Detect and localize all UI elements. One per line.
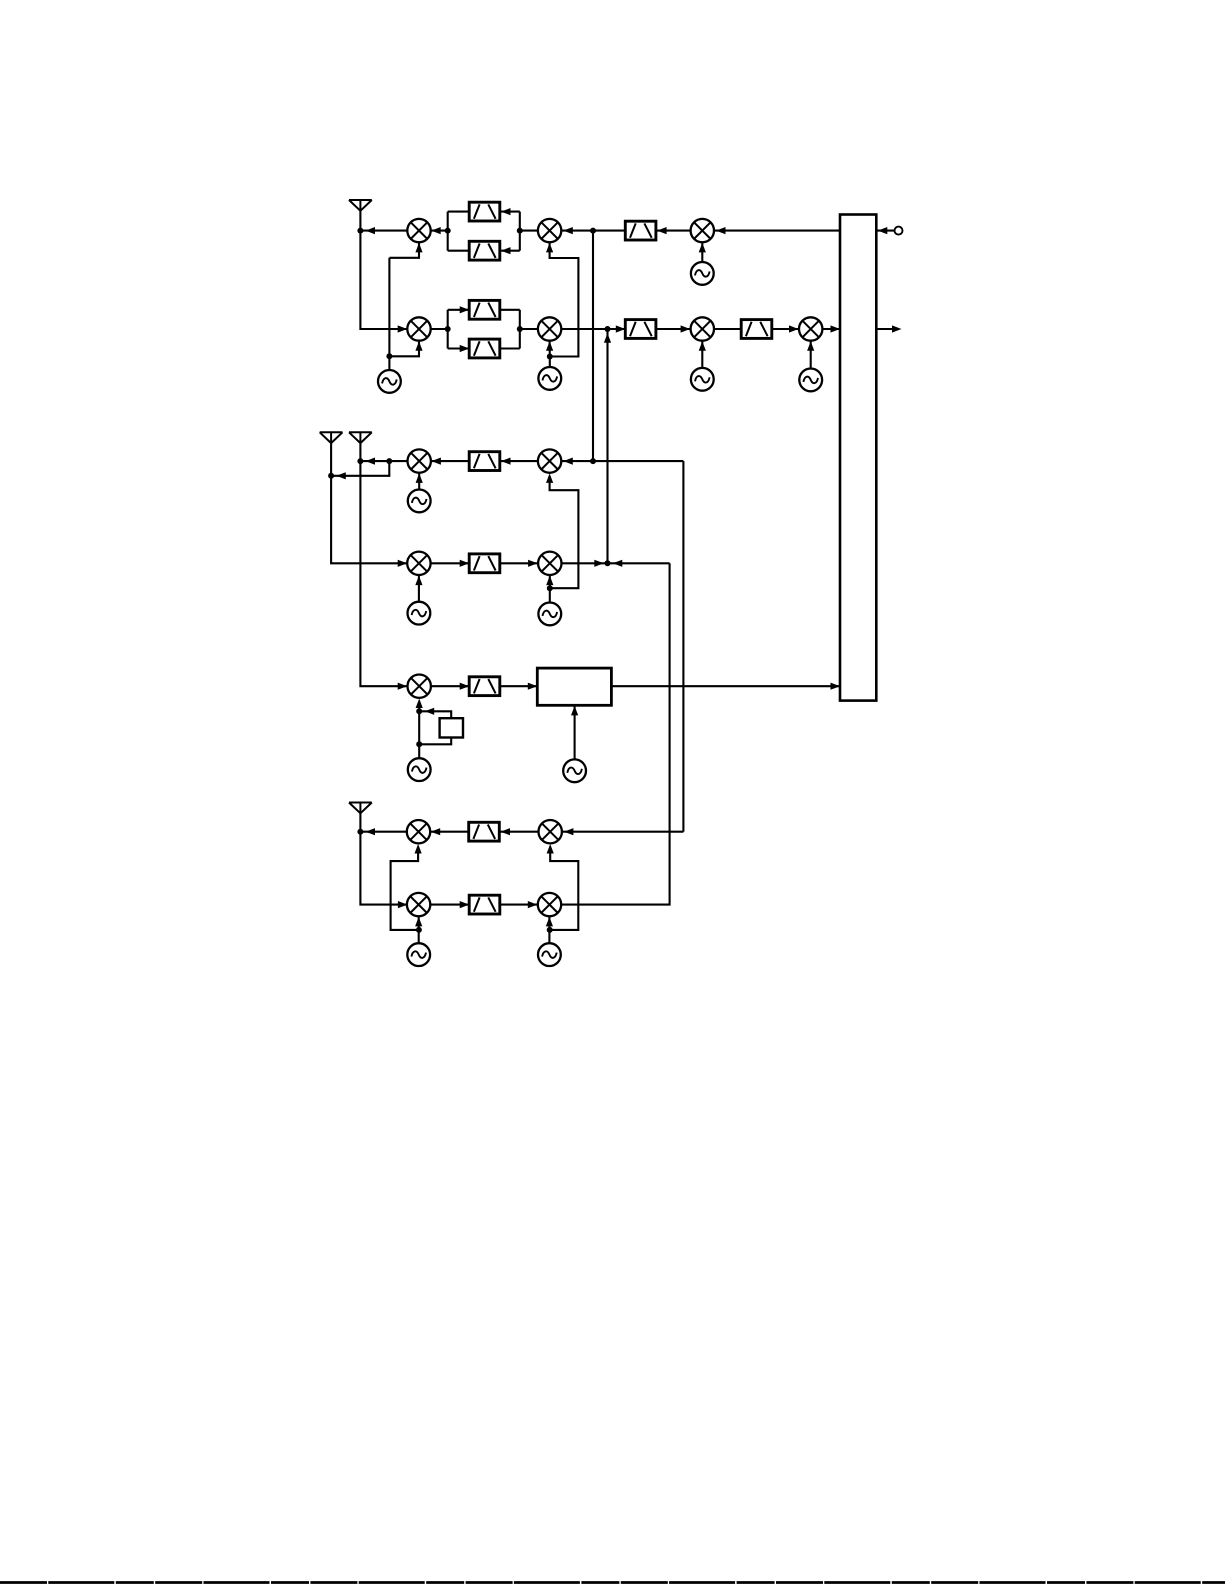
node row4 merge [605, 560, 611, 566]
mixer M16 [539, 820, 562, 843]
wire ANT3 lead [360, 443, 407, 686]
mixer M9 [538, 449, 561, 472]
wire F8 to M8 [431, 460, 469, 462]
wire M8 to ANT3 [360, 460, 407, 462]
node ANT1 junction [357, 228, 363, 234]
wire left bracket row2 [447, 310, 449, 349]
wire M9 LO elbow [550, 477, 579, 588]
wire F7 to M7 [772, 328, 799, 330]
oscillator OSC2 [378, 370, 401, 393]
arrowhead into M16 [564, 828, 574, 835]
wire M9 to F8 [500, 460, 538, 462]
filter F4 [469, 300, 500, 319]
wire M10 to F9 [431, 562, 470, 564]
filter F11 [469, 822, 500, 841]
oscillator OSC12 [538, 943, 561, 966]
mixer M5 [538, 317, 561, 340]
wire OSC2 to M4 [389, 341, 419, 357]
oscillator OSC4 [691, 368, 714, 391]
wire OSC7 to M10 [418, 575, 420, 602]
wire OSC3 to M5 [549, 341, 551, 357]
node ANT4 junction [357, 829, 363, 835]
mixer M15 [407, 820, 430, 843]
wire OSC12 up [548, 916, 550, 943]
arrowhead into F11 [501, 828, 511, 835]
mixer M3 [691, 219, 714, 242]
node row3 split [386, 458, 392, 464]
mixer M8 [408, 449, 431, 472]
arrowhead OSC9 into DCO [571, 706, 578, 716]
arrowhead divider into node [425, 708, 435, 715]
arrowhead into M6 [681, 325, 691, 332]
wire M1 to filter bracket [431, 230, 448, 232]
wire stub to F1 [448, 211, 470, 213]
wire OSC9 to DCO [574, 705, 576, 759]
wire left bracket row1 [447, 212, 449, 251]
wire row3 feed down to row6 [682, 461, 684, 832]
wire row7 into row4 merge [608, 562, 670, 564]
arrowhead into F8 [501, 458, 511, 465]
arrowhead into baseband right [878, 227, 888, 234]
mixer M10 [407, 552, 430, 575]
wire OSC1 to M3 [701, 242, 703, 262]
mixer M11 [538, 552, 561, 575]
arrowhead into mixer M4 [398, 325, 408, 332]
node right bracket row1 [517, 228, 523, 234]
antenna ANT1 [349, 200, 372, 211]
node ANT2 junction [328, 473, 334, 479]
wire M5 to F6 [561, 328, 625, 330]
arrowhead into M7 [789, 325, 799, 332]
arrowhead OSC2 into M1 [415, 243, 422, 253]
node divider top [416, 708, 422, 714]
oscillator OSC9 [563, 759, 586, 782]
page rule [0, 1581, 1225, 1584]
mixer M1 [407, 219, 430, 242]
arrowhead into mixer M12 [398, 683, 408, 690]
filter F1 [469, 202, 500, 221]
arrowhead into DCO [528, 683, 538, 690]
wire divider bottom link [419, 738, 451, 745]
wire OSC3 up [549, 357, 551, 368]
wire row3 feed [561, 460, 683, 462]
wire F5 out [500, 347, 520, 349]
wire OSC6 to M8 [418, 473, 420, 490]
arrowhead OSC12 into M14 [546, 917, 553, 927]
wire stub to F4 [448, 309, 470, 311]
node left bracket row1 [445, 228, 451, 234]
arrowhead shared osc into M9 [546, 473, 553, 483]
wire row7 riser into row2 merge [606, 329, 608, 563]
wire input terminal [876, 230, 894, 232]
wire OSC8 up [549, 575, 551, 603]
wire row6 feed [562, 831, 684, 833]
arrowhead into F3 [657, 227, 667, 234]
node OSC3 split [547, 354, 553, 360]
arrowhead OSC8 into M11 [546, 576, 553, 586]
mixer M14 [538, 893, 561, 916]
terminal circle [895, 227, 903, 235]
arrowhead OSC1 into M3 [699, 243, 706, 253]
arrowhead into ANT4 node [366, 828, 376, 835]
node row2 merge [605, 326, 611, 332]
arrowhead into F6 [616, 325, 626, 332]
baseband processor block [840, 215, 876, 701]
wire OSC11 up [418, 916, 420, 943]
wire M7 to baseband [822, 328, 840, 330]
arrowhead into baseband row2 [831, 325, 841, 332]
oscillator OSC7 [408, 602, 431, 625]
oscillator OSC10 [408, 758, 431, 781]
arrowhead into ANT2 node [336, 472, 346, 479]
wire F4 out [500, 309, 520, 311]
oscillator OSC1 [691, 262, 714, 285]
wire row3 split to ANT2 [331, 461, 389, 476]
mixer M6 [691, 317, 714, 340]
arrowhead OSC5 into M7 [807, 341, 814, 351]
filter F6 [625, 320, 656, 339]
wire F11 to M15 [430, 831, 469, 833]
arrowhead into M9 [563, 458, 573, 465]
wire F6 to M6 [656, 328, 691, 330]
node OSC2 split [386, 353, 392, 359]
wire bracket to M2 [520, 230, 538, 232]
arrowhead M11 out [594, 560, 604, 567]
arrowhead into M1 [431, 227, 441, 234]
node ANT3 junction [357, 458, 363, 464]
wire OSC2 to M1 [389, 242, 419, 257]
arrowhead into F4 [460, 306, 470, 313]
arrowhead baseband output [892, 325, 902, 332]
filter F7 [741, 320, 772, 339]
filter F12 [469, 895, 500, 914]
oscillator OSC5 [799, 369, 822, 392]
arrowhead OSC4 into M6 [699, 341, 706, 351]
wire right bracket row1 [519, 212, 521, 251]
wire OSC4 to M6 [701, 341, 703, 368]
wire F10 to DCO [500, 685, 538, 687]
arrowhead into M11 [528, 560, 538, 567]
arrowhead into F5 [460, 345, 470, 352]
node row1 tap [590, 228, 596, 234]
arrowhead into M14 [528, 901, 538, 908]
oscillator OSC6 [408, 490, 431, 513]
wire OSC11 to M15 [391, 847, 419, 930]
arrowhead DCO into baseband [831, 683, 841, 690]
arrowhead OSC11 into M13 [415, 917, 422, 927]
arrowhead into ANT3 node [366, 458, 376, 465]
arrowhead OSC12 into M16 [547, 844, 554, 854]
arrowhead row7 into merge [613, 560, 623, 567]
wire M3 to M2 [561, 230, 690, 232]
wire M14 out riser [561, 563, 669, 904]
filter F3 [625, 221, 656, 240]
wire stub to F5 [448, 347, 470, 349]
filter F5 [469, 339, 500, 358]
wire M12 LO stem [418, 702, 420, 758]
wire F9 to M11 [500, 562, 538, 564]
wire M6 to F7 [714, 328, 741, 330]
arrowhead into M8 [431, 458, 441, 465]
wire OSC2 up [388, 258, 390, 370]
arrowhead OSC6 into M8 [416, 473, 423, 483]
oscillator OSC3 [538, 367, 561, 390]
filter F10 [469, 677, 500, 696]
node OSC11 split [416, 927, 422, 933]
oscillator OSC11 [407, 943, 430, 966]
wire ANT4 lead [360, 813, 407, 904]
filter F8 [469, 452, 500, 471]
arrowhead into M3 [716, 227, 726, 234]
arrowhead into M15 [431, 828, 441, 835]
wire M16 to F11 [499, 831, 538, 833]
node divider bottom [416, 741, 422, 747]
DCO block [537, 668, 611, 705]
node row3 tap join [590, 458, 596, 464]
antenna ANT4 [349, 803, 372, 814]
arrowhead into M2 [563, 227, 573, 234]
wire bracket to M5 [520, 328, 538, 330]
wire ANT1 lead / down to row2 [360, 211, 407, 329]
arrowhead OSC3 into M5 [546, 341, 553, 351]
wire baseband to M3 [714, 230, 840, 232]
node right bracket row2 [517, 326, 523, 332]
wire M4 to bracket [431, 328, 448, 330]
arrowhead OSC2 into M4 [415, 341, 422, 351]
wire right stub F2 [500, 250, 520, 252]
arrowhead OSC7 into M10 [415, 576, 422, 586]
divider box [440, 718, 463, 737]
oscillator OSC8 [538, 603, 561, 626]
wire OSC12 to M16 [550, 847, 579, 930]
antenna ANT2 [320, 432, 343, 443]
wire M12 to F10 [431, 685, 469, 687]
arrowhead into mixer M10 [398, 560, 408, 567]
wire M11 to merge [562, 562, 608, 564]
arrowhead into F2 [501, 247, 511, 254]
wire baseband output [876, 328, 897, 330]
wire OSC3 to M2 [550, 242, 579, 356]
arrowhead into F1 [501, 208, 511, 215]
arrowhead divider into M12 [416, 699, 423, 709]
wire F12 to M14 [500, 904, 538, 906]
wire M13 to F12 [430, 904, 469, 906]
wire OSC5 to M7 [810, 341, 812, 369]
arrowhead into F12 [460, 901, 470, 908]
mixer M12 [408, 675, 431, 698]
mixer M7 [799, 317, 822, 340]
wire row1 tap down to row3 [592, 231, 594, 462]
wire stub to F2 [448, 250, 470, 252]
wire M15 to ANT4 [360, 831, 406, 833]
node OSC8 split [547, 585, 553, 591]
filter F2 [469, 241, 500, 260]
wire right bracket row2 [519, 310, 521, 349]
arrowhead into mixer M13 [398, 901, 408, 908]
node left bracket row2 [445, 326, 451, 332]
antenna ANT3 [349, 432, 372, 443]
node OSC12 split [547, 927, 553, 933]
wire right stub F1 [500, 211, 520, 213]
arrowhead into F10 [460, 683, 470, 690]
arrowhead OSC11 into M15 [415, 844, 422, 854]
mixer M4 [407, 317, 430, 340]
mixer M13 [407, 893, 430, 916]
wire divider top link [419, 711, 451, 718]
arrowhead into F9 [460, 560, 470, 567]
wire M1 to ANT1 [360, 230, 407, 232]
arrowhead OSC3 into M2 [546, 243, 553, 253]
arrowhead into ANT1 node [366, 227, 376, 234]
wire ANT2 lead [331, 443, 407, 563]
filter F9 [469, 554, 500, 573]
arrowhead riser into row2 merge [604, 333, 611, 343]
mixer M2 [538, 219, 561, 242]
wire DCO to baseband [611, 685, 840, 687]
